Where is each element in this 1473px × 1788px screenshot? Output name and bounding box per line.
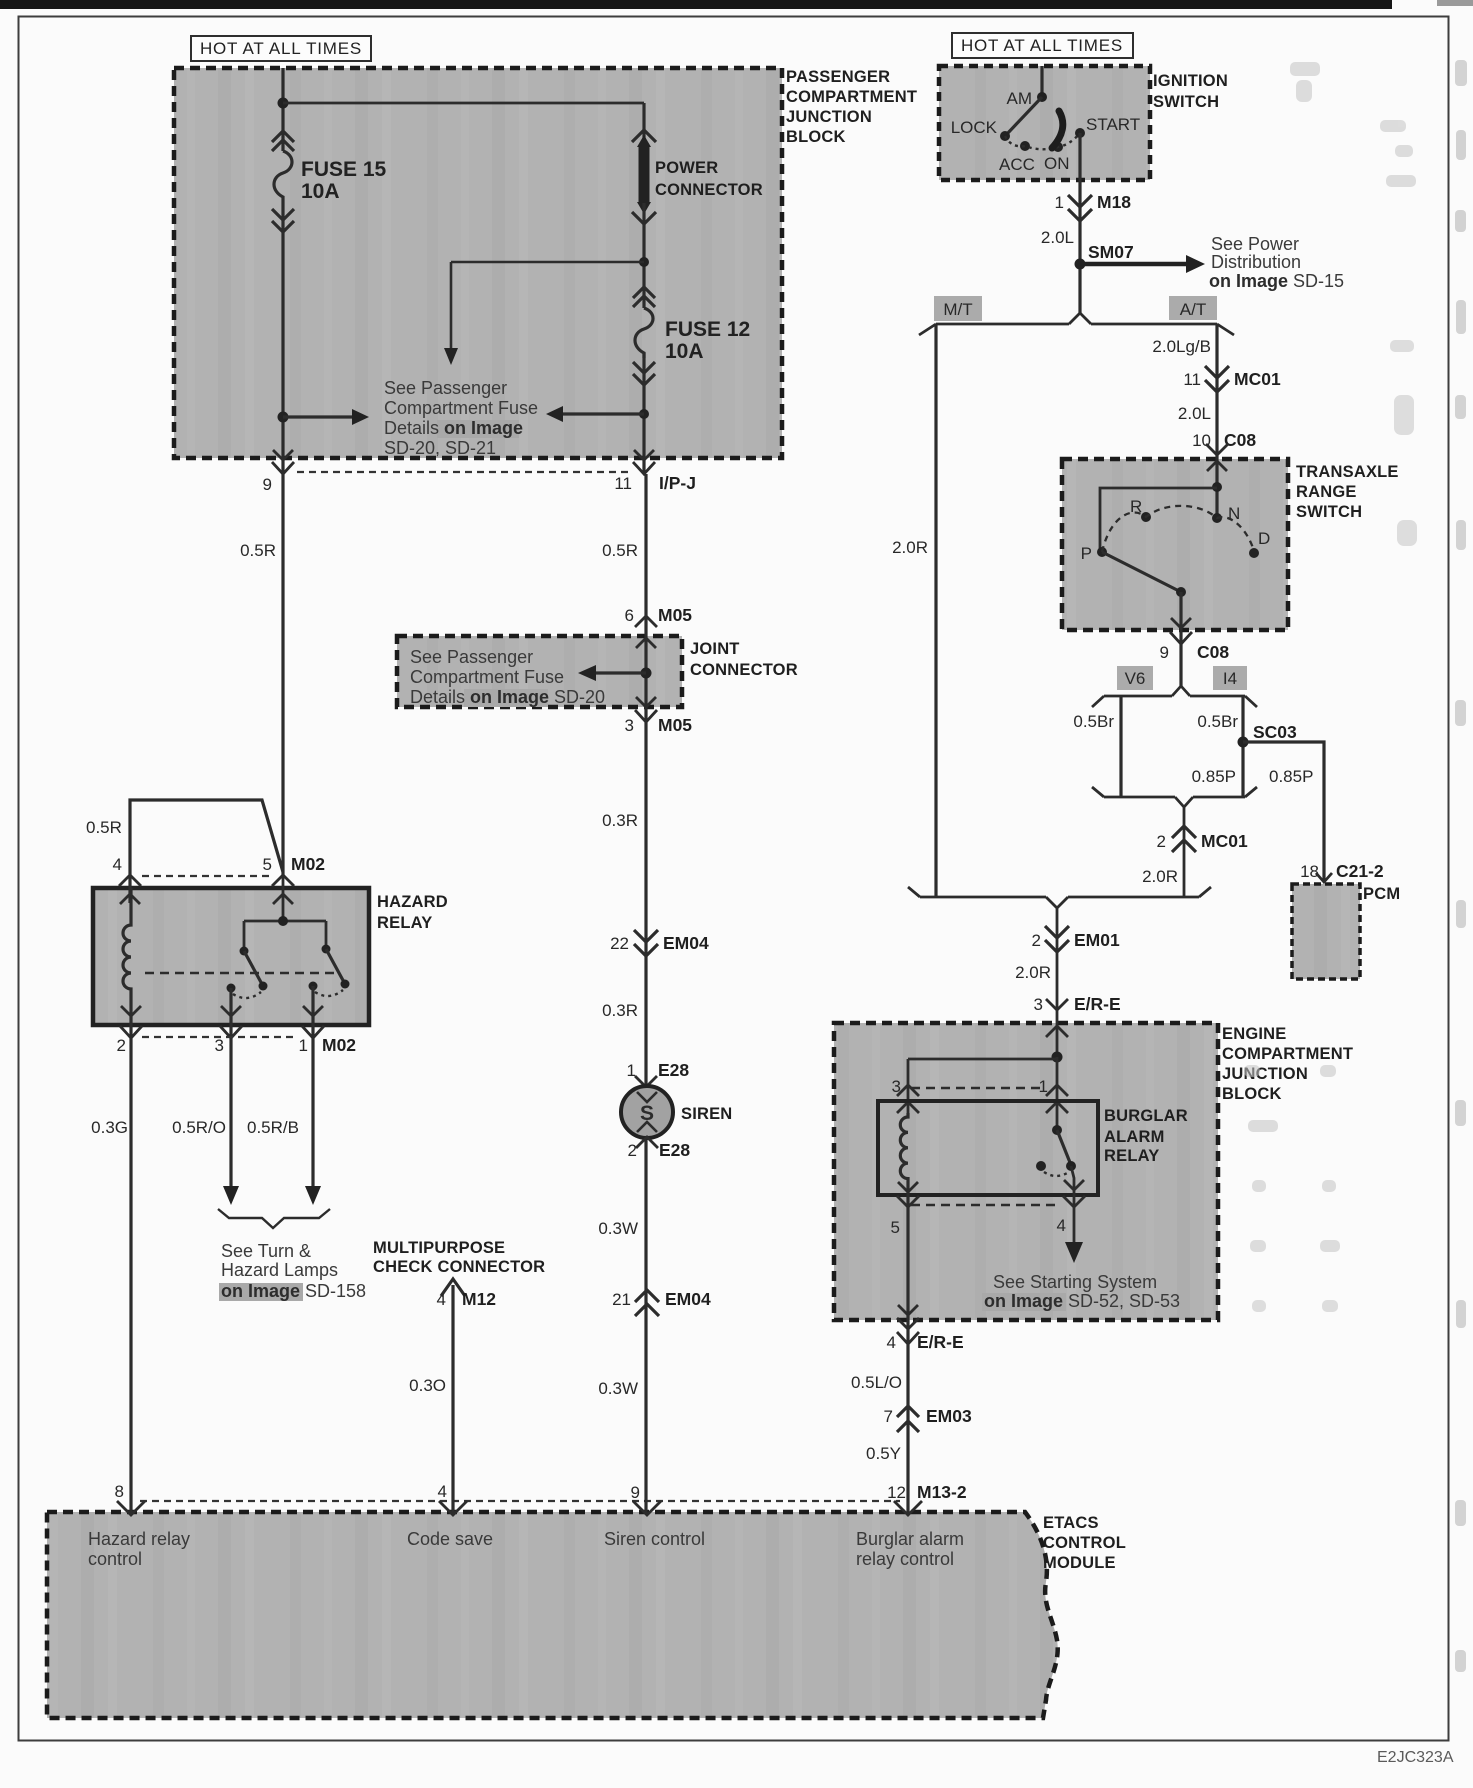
ignition wiper arm AM-LOCK: [1006, 97, 1042, 135]
pin 9 connector of PCJB: [272, 450, 294, 474]
fuse F12 symbol: [633, 287, 655, 385]
svg-text:ACC: ACC: [999, 155, 1035, 174]
wire M/T long down: [934, 324, 937, 897]
svg-text:RELAY: RELAY: [377, 914, 432, 932]
branch to relay pin 3: [908, 1059, 1057, 1117]
svg-text:3: 3: [215, 1036, 224, 1055]
node dot mid right: [639, 257, 649, 267]
dashed selector arc: [1102, 506, 1254, 552]
wire START down to M18: [1078, 133, 1081, 313]
V6 tag: [1117, 666, 1153, 690]
svg-text:D: D: [1258, 529, 1270, 548]
svg-text:M05: M05: [658, 715, 692, 735]
pin 9 C08 connector: [1170, 618, 1192, 644]
note see power distribution SD-15: [1209, 234, 1344, 291]
svg-text:22: 22: [610, 934, 629, 953]
engine compartment junction block box: [834, 1023, 1353, 1320]
svg-text:P: P: [1081, 544, 1092, 563]
svg-text:1: 1: [1055, 193, 1064, 212]
contact R: [1141, 512, 1151, 522]
svg-text:0.85P: 0.85P: [1192, 767, 1236, 786]
svg-text:Compartment Fuse: Compartment Fuse: [410, 667, 564, 687]
svg-text:ETACS: ETACS: [1043, 1514, 1099, 1532]
svg-text:control: control: [88, 1549, 142, 1569]
svg-text:RANGE: RANGE: [1296, 483, 1357, 501]
svg-text:2.0L: 2.0L: [1041, 228, 1074, 247]
connector 21 EM04: [635, 1290, 659, 1316]
svg-text:BURGLAR: BURGLAR: [1104, 1107, 1188, 1125]
wire to P contact: [1100, 488, 1217, 551]
svg-text:0.5R: 0.5R: [86, 818, 122, 837]
svg-text:JUNCTION: JUNCTION: [1222, 1065, 1308, 1083]
svg-text:CHECK CONNECTOR: CHECK CONNECTOR: [373, 1258, 545, 1276]
svg-text:SD-20, SD-21: SD-20, SD-21: [384, 438, 496, 458]
wire horizontal to power connector: [283, 102, 644, 105]
svg-text:JOINT: JOINT: [690, 640, 740, 658]
node dot transaxle top: [1212, 482, 1222, 492]
svg-text:V6: V6: [1125, 669, 1146, 688]
contact N: [1212, 513, 1222, 523]
burglar relay switch: [1052, 1125, 1062, 1135]
svg-text:E28: E28: [658, 1060, 689, 1080]
svg-text:10A: 10A: [665, 340, 704, 363]
contact D: [1249, 548, 1259, 558]
hazard relay pin5 internal tee: [244, 875, 326, 950]
svg-text:2: 2: [1032, 931, 1041, 950]
svg-text:5: 5: [891, 1218, 900, 1237]
svg-text:See Passenger: See Passenger: [384, 378, 507, 398]
svg-text:C08: C08: [1197, 642, 1229, 662]
passenger compartment junction block box: [174, 68, 917, 458]
node ACC: [1020, 141, 1030, 151]
svg-text:FUSE 15: FUSE 15: [301, 158, 387, 181]
svg-text:S: S: [640, 1102, 654, 1125]
svg-text:N: N: [1228, 504, 1240, 523]
hazard relay switch arm right: [326, 949, 345, 984]
dotted detent arc: [1005, 133, 1080, 149]
thick wiper stroke: [1052, 111, 1063, 148]
wire jumper pin4 to pin5: [130, 800, 283, 903]
pin 2 E28 connector: [636, 1137, 658, 1148]
svg-text:10A: 10A: [301, 180, 340, 203]
svg-text:HOT AT ALL TIMES: HOT AT ALL TIMES: [961, 36, 1123, 55]
svg-text:on Image SD-158: on Image SD-158: [221, 1281, 366, 1301]
svg-text:COMPARTMENT: COMPARTMENT: [786, 88, 917, 106]
wire hazard pin2 to ETACS pin8: [129, 1038, 132, 1514]
svg-text:relay control: relay control: [856, 1549, 954, 1569]
svg-text:4: 4: [437, 1290, 446, 1309]
svg-text:0.3R: 0.3R: [602, 1001, 638, 1020]
svg-text:BLOCK: BLOCK: [1222, 1085, 1282, 1103]
merge bus above MC01: [1092, 787, 1257, 897]
connector 11 MC01: [1205, 366, 1229, 392]
wire branch left with down arrow: [451, 262, 644, 348]
svg-text:See Starting System: See Starting System: [993, 1272, 1157, 1292]
thick arrow to power distribution: [1080, 262, 1186, 267]
selector arm P to output: [1102, 552, 1181, 592]
svg-text:ON: ON: [1044, 154, 1070, 173]
svg-text:EM04: EM04: [663, 933, 709, 953]
svg-text:Distribution: Distribution: [1211, 252, 1301, 272]
svg-text:on Image SD-15: on Image SD-15: [1209, 271, 1344, 291]
svg-text:0.5R: 0.5R: [240, 541, 276, 560]
wire I4 branch: [1241, 696, 1244, 797]
svg-text:3: 3: [625, 716, 634, 735]
svg-text:Details on Image: Details on Image: [384, 418, 523, 438]
thin dashed line below hazard relay: [142, 1036, 295, 1038]
svg-text:2.0R: 2.0R: [1015, 963, 1051, 982]
svg-text:C21-2: C21-2: [1336, 861, 1384, 881]
relay pin 1 connector: [1046, 1085, 1068, 1113]
svg-text:2: 2: [117, 1036, 126, 1055]
ignition switch feed wire: [1040, 66, 1043, 97]
mechanical link dashed line: [145, 972, 335, 975]
contact P: [1097, 547, 1107, 557]
svg-text:4: 4: [113, 855, 122, 874]
connector 4 E/R-E: [897, 1332, 919, 1344]
svg-text:CONNECTOR: CONNECTOR: [690, 661, 798, 679]
burglar relay pin 5 exit: [897, 1182, 919, 1207]
pin 4 arrow to starting system: [1065, 1242, 1083, 1263]
pin 4 connector hazard relay: [119, 875, 141, 904]
svg-text:M12: M12: [462, 1289, 496, 1309]
svg-text:SWITCH: SWITCH: [1153, 93, 1219, 111]
hazard relay coil: [123, 888, 131, 1038]
thin dashed line above hazard relay: [142, 875, 271, 877]
svg-text:PASSENGER: PASSENGER: [786, 68, 890, 86]
wire below fuse15 to pin 9: [281, 202, 284, 875]
svg-text:COMPARTMENT: COMPARTMENT: [1222, 1045, 1353, 1063]
connector 1 M18: [1068, 195, 1092, 221]
pin 11 connector of PCJB: [633, 450, 655, 474]
pin 5 connector hazard relay: [272, 875, 294, 904]
wire pin1 arrow down: [311, 1038, 314, 1186]
svg-text:2.0L: 2.0L: [1178, 404, 1211, 423]
svg-text:EM01: EM01: [1074, 930, 1120, 950]
note see turn and hazard lamps SD-158: [219, 1241, 366, 1301]
svg-text:11: 11: [614, 474, 632, 493]
transaxle range switch box: [1062, 459, 1399, 630]
svg-text:CONTROL: CONTROL: [1043, 1534, 1126, 1552]
svg-text:MC01: MC01: [1201, 831, 1248, 851]
arrow right to fuse note: [283, 415, 352, 418]
wire pin 5 down and out of ECJB: [906, 1182, 909, 1344]
node dot fuse12 bottom: [639, 409, 649, 419]
svg-text:See Turn &: See Turn &: [221, 1241, 311, 1261]
wire fuse12 to pin 11: [642, 353, 645, 474]
svg-text:0.5Br: 0.5Br: [1073, 712, 1114, 731]
svg-text:IGNITION: IGNITION: [1153, 72, 1228, 90]
scan bleed-through noise right margin: [1455, 60, 1467, 1672]
svg-text:I4: I4: [1223, 669, 1237, 688]
dashed junction boundary lower: [911, 1204, 1060, 1207]
svg-text:2.0R: 2.0R: [1142, 867, 1178, 886]
svg-text:3: 3: [892, 1077, 901, 1096]
svg-text:0.5R/B: 0.5R/B: [247, 1118, 299, 1137]
node SC03: [1238, 737, 1249, 748]
svg-text:M/T: M/T: [943, 300, 972, 319]
svg-text:SM07: SM07: [1088, 242, 1134, 262]
svg-text:ALARM: ALARM: [1104, 1128, 1165, 1146]
svg-text:HOT AT ALL TIMES: HOT AT ALL TIMES: [200, 39, 362, 58]
svg-text:Siren control: Siren control: [604, 1529, 705, 1549]
M/T A/T branch fork: [919, 313, 1234, 335]
svg-text:Details on Image SD-20: Details on Image SD-20: [410, 687, 605, 707]
node output dot: [1176, 587, 1186, 597]
svg-text:I/P-J: I/P-J: [659, 473, 696, 493]
M/T tag: [934, 296, 982, 321]
svg-text:CONNECTOR: CONNECTOR: [655, 181, 763, 199]
I4 tag: [1213, 666, 1247, 690]
svg-text:FUSE 12: FUSE 12: [665, 318, 750, 341]
A/T tag: [1169, 296, 1217, 320]
svg-text:MC01: MC01: [1234, 369, 1281, 389]
node LOCK: [1000, 131, 1010, 141]
svg-text:ENGINE: ENGINE: [1222, 1025, 1286, 1043]
HOT AT ALL TIMES label (left): [191, 36, 371, 61]
svg-text:START: START: [1086, 115, 1140, 134]
svg-text:M18: M18: [1097, 192, 1131, 212]
node junction dot top left: [278, 98, 289, 109]
svg-text:4: 4: [887, 1333, 896, 1352]
svg-text:0.3G: 0.3G: [91, 1118, 128, 1137]
connector 7 EM03: [897, 1406, 919, 1432]
svg-text:1: 1: [1039, 1077, 1048, 1096]
wire to EM03: [906, 1344, 909, 1514]
burglar alarm relay box: [878, 1101, 1188, 1195]
svg-text:M02: M02: [322, 1035, 356, 1055]
power connector wire top: [642, 103, 645, 146]
fuse F15 symbol: [272, 131, 294, 232]
wire V6 branch: [1119, 696, 1122, 797]
thin dashed line below PCJB: [297, 471, 632, 473]
connector 2 EM01: [1045, 926, 1069, 952]
svg-text:JUNCTION: JUNCTION: [786, 108, 872, 126]
PCM box: [1292, 884, 1400, 979]
svg-text:C08: C08: [1224, 430, 1256, 450]
V6 I4 fork: [1092, 686, 1257, 707]
svg-text:E2JC323A: E2JC323A: [1377, 1749, 1454, 1766]
svg-text:12: 12: [887, 1483, 906, 1502]
svg-text:BLOCK: BLOCK: [786, 128, 846, 146]
svg-text:3: 3: [1034, 995, 1043, 1014]
ETACS control module box: [47, 1512, 1126, 1718]
svg-text:M13-2: M13-2: [917, 1482, 967, 1502]
svg-text:E28: E28: [659, 1140, 690, 1160]
svg-text:HAZARD: HAZARD: [377, 893, 448, 911]
svg-text:4: 4: [1057, 1216, 1066, 1235]
connector 2 MC01: [1172, 826, 1196, 852]
dashed contact arcs: [233, 992, 261, 998]
relay pin 1 wire: [1056, 1057, 1059, 1130]
wire A/T down: [1215, 324, 1218, 518]
main merge bus: [908, 887, 1211, 1057]
svg-text:E/R-E: E/R-E: [917, 1332, 964, 1352]
svg-text:Hazard relay: Hazard relay: [88, 1529, 190, 1549]
svg-text:POWER: POWER: [655, 159, 718, 177]
wire pin3 arrow down: [229, 1038, 232, 1186]
pin 1 exit connector: [311, 986, 314, 1038]
svg-text:5: 5: [263, 855, 272, 874]
svg-text:4: 4: [438, 1482, 447, 1501]
svg-text:0.5L/O: 0.5L/O: [851, 1373, 902, 1392]
brace under arrows: [218, 1209, 330, 1228]
svg-text:0.3O: 0.3O: [409, 1376, 446, 1395]
svg-text:0.5R/O: 0.5R/O: [172, 1118, 226, 1137]
wire middle column I/P-J down: [644, 474, 647, 1514]
svg-text:Compartment Fuse: Compartment Fuse: [384, 398, 538, 418]
svg-text:9: 9: [1160, 643, 1169, 662]
svg-text:See Power: See Power: [1211, 234, 1299, 254]
svg-text:LOCK: LOCK: [951, 118, 998, 137]
hazard relay box: [93, 888, 448, 1025]
relay pin 3 connector: [897, 1085, 919, 1113]
connector 22 EM04: [634, 930, 658, 956]
svg-text:0.5Y: 0.5Y: [866, 1444, 901, 1463]
svg-text:9: 9: [263, 475, 272, 494]
joint connector note text: [410, 647, 605, 707]
svg-text:SC03: SC03: [1253, 722, 1297, 742]
svg-text:M02: M02: [291, 854, 325, 874]
note see passenger compartment fuse details SD-20 SD-21: [384, 378, 538, 458]
ETACS pin labels: [88, 1529, 964, 1569]
wire output down: [1179, 592, 1182, 686]
svg-text:8: 8: [115, 1482, 124, 1501]
svg-text:Code save: Code save: [407, 1529, 493, 1549]
svg-text:SIREN: SIREN: [681, 1105, 732, 1123]
node ON: [1053, 142, 1063, 152]
open arrow up M12: [441, 1279, 465, 1296]
svg-text:21: 21: [612, 1290, 631, 1309]
svg-text:0.3R: 0.3R: [602, 811, 638, 830]
svg-text:EM03: EM03: [926, 1406, 972, 1426]
svg-text:PCM: PCM: [1363, 885, 1400, 903]
wire power connector to fuse12: [642, 203, 645, 308]
burglar relay coil: [900, 1113, 908, 1182]
dashed junction boundary upper: [911, 1087, 1044, 1090]
pin 3 M05 connector: [635, 697, 657, 722]
svg-text:2: 2: [1157, 832, 1166, 851]
scanner top bar: [0, 0, 1392, 9]
node START: [1075, 128, 1085, 138]
svg-text:A/T: A/T: [1180, 300, 1206, 319]
svg-text:MODULE: MODULE: [1043, 1554, 1116, 1572]
svg-text:2.0Lg/B: 2.0Lg/B: [1152, 337, 1211, 356]
svg-text:1: 1: [299, 1036, 308, 1055]
svg-text:M05: M05: [658, 605, 692, 625]
joint connector junction dot and left arrow: [641, 668, 652, 679]
svg-text:0.3W: 0.3W: [598, 1379, 638, 1398]
svg-text:TRANSAXLE: TRANSAXLE: [1296, 463, 1399, 481]
burglar relay pin 4 exit: [1071, 1166, 1074, 1242]
svg-text:MULTIPURPOSE: MULTIPURPOSE: [373, 1239, 505, 1257]
svg-text:E/R-E: E/R-E: [1074, 994, 1121, 1014]
svg-text:2.0R: 2.0R: [892, 538, 928, 557]
svg-text:See Passenger: See Passenger: [410, 647, 533, 667]
ETACS thin dashed connector line: [140, 1500, 900, 1502]
coil exit chevron pin2: [120, 1006, 142, 1038]
hazard relay switch arm left: [244, 951, 263, 986]
svg-text:9: 9: [631, 1483, 640, 1502]
wire M12 code save: [451, 1285, 454, 1514]
HOT AT ALL TIMES label (right): [952, 33, 1133, 58]
node AM: [1037, 92, 1047, 102]
svg-text:6: 6: [625, 606, 634, 625]
svg-text:11: 11: [1183, 370, 1201, 389]
note see starting system SD-52 SD-53: [982, 1272, 1180, 1311]
svg-text:on Image SD-52, SD-53: on Image SD-52, SD-53: [984, 1291, 1180, 1311]
svg-text:RELAY: RELAY: [1104, 1147, 1159, 1165]
hazard relay contact dots: [227, 984, 236, 993]
svg-text:EM04: EM04: [665, 1289, 711, 1309]
arrow left to fuse note: [563, 412, 644, 415]
siren circle: [621, 1086, 673, 1138]
svg-text:SWITCH: SWITCH: [1296, 503, 1362, 521]
svg-text:2: 2: [628, 1141, 637, 1160]
pin 3 exit connector: [229, 988, 232, 1038]
svg-text:0.3W: 0.3W: [598, 1219, 638, 1238]
svg-text:0.5R: 0.5R: [602, 541, 638, 560]
ignition switch box: [939, 66, 1228, 180]
joint connector box: [397, 636, 798, 707]
power connector symbol: [632, 130, 656, 224]
wire SC03 to PCM: [1243, 742, 1324, 880]
node dot ECJB: [1052, 1052, 1063, 1063]
svg-text:Burglar alarm: Burglar alarm: [856, 1529, 964, 1549]
wire fuse15 feed vertical: [281, 68, 284, 151]
svg-text:18: 18: [1300, 862, 1319, 881]
svg-text:AM: AM: [1007, 89, 1033, 108]
svg-text:Hazard Lamps: Hazard Lamps: [221, 1260, 338, 1280]
node dot fuse15 bottom: [278, 412, 289, 423]
svg-text:7: 7: [884, 1407, 893, 1426]
svg-text:0.5Br: 0.5Br: [1197, 712, 1238, 731]
svg-text:0.85P: 0.85P: [1269, 767, 1313, 786]
